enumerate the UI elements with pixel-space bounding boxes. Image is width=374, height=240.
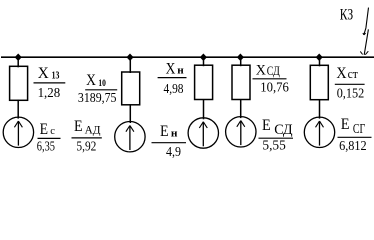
source EAD circle with EMF arrow (115, 122, 145, 152)
wire branch 2 resistor to source (129, 104, 131, 123)
wire bus line (1, 56, 374, 58)
wire branch 1 resistor to source (17, 100, 19, 119)
node junction dot 2 (126, 53, 133, 61)
resistor XSD (232, 65, 250, 99)
label ESD (259, 117, 294, 153)
svg-text:СД: СД (267, 63, 280, 78)
fraction line Ec (38, 137, 61, 139)
resistor X10 (122, 72, 140, 105)
fraction line Xst (335, 83, 365, 85)
label Xn (158, 61, 187, 96)
svg-text:5,92: 5,92 (76, 139, 96, 154)
svg-text:Е: Е (262, 117, 271, 134)
svg-text:КЗ: КЗ (340, 7, 354, 24)
svg-text:Х: Х (86, 72, 96, 89)
svg-text:Х: Х (336, 65, 346, 82)
fraction line X10 (85, 89, 117, 91)
wire branch 3 resistor to source (203, 99, 205, 119)
svg-text:5,55: 5,55 (262, 138, 286, 153)
svg-text:СГ: СГ (353, 121, 365, 136)
wire branch 5 resistor to source (319, 99, 321, 118)
resistor Xn (195, 65, 213, 99)
label XSD (253, 62, 290, 94)
svg-text:Е: Е (160, 123, 169, 140)
wire branch 1 bus to resistor (17, 57, 19, 67)
svg-text:АД: АД (85, 122, 101, 136)
svg-text:Х: Х (256, 62, 266, 78)
fraction line En (152, 142, 187, 144)
fraction line XSD (253, 78, 287, 80)
svg-text:6,35: 6,35 (37, 138, 55, 153)
node junction dot 1 (15, 53, 22, 61)
wire branch 4 bus to resistor (240, 57, 242, 66)
svg-text:10,76: 10,76 (260, 79, 289, 94)
svg-text:СД: СД (274, 122, 293, 138)
svg-text:3189,75: 3189,75 (78, 90, 117, 105)
fraction line ESG (338, 136, 372, 138)
node junction dot 5 (316, 53, 323, 61)
svg-text:ст: ст (348, 66, 359, 81)
label X10 (78, 72, 117, 105)
svg-text:0,152: 0,152 (337, 86, 365, 101)
fraction line EAD (72, 137, 102, 139)
svg-text:13: 13 (52, 71, 60, 82)
label ESG (338, 116, 372, 153)
wire branch 3 bus to resistor (203, 57, 205, 66)
label Ec (37, 121, 61, 154)
wire branch 2 bus to resistor (129, 57, 131, 73)
svg-text:6,812: 6,812 (339, 138, 367, 153)
svg-text:10: 10 (98, 78, 106, 88)
resistor X13 (10, 66, 28, 100)
svg-text:н: н (171, 128, 178, 139)
svg-text:Е: Е (40, 121, 48, 138)
svg-text:4,98: 4,98 (164, 81, 184, 96)
fraction line ESD (259, 137, 294, 139)
label En (152, 123, 187, 159)
node junction dot 4 (237, 53, 244, 61)
source Ec circle with EMF arrow (3, 117, 33, 147)
resistor Xst (310, 65, 328, 99)
fraction line Xn (158, 77, 187, 79)
fraction line X13 (34, 82, 66, 84)
label EAD (72, 118, 102, 153)
svg-text:н: н (177, 66, 184, 77)
source En circle with EMF arrow (188, 118, 218, 148)
svg-text:Е: Е (341, 116, 350, 133)
svg-text:с: с (50, 125, 55, 137)
label X13 (34, 65, 66, 100)
svg-text:Х: Х (166, 61, 176, 78)
svg-text:1,28: 1,28 (38, 85, 61, 100)
node junction dot 3 (200, 53, 207, 61)
svg-text:Х: Х (38, 65, 49, 82)
wire branch 5 bus to resistor (319, 57, 321, 66)
svg-text:Е: Е (74, 118, 83, 135)
source ESG circle with EMF arrow (304, 117, 334, 147)
wire branch 4 resistor to source (240, 99, 242, 118)
source ESD circle with EMF arrow (226, 117, 256, 147)
short-circuit lightning arrow (360, 8, 368, 55)
label Xst (335, 65, 365, 101)
svg-text:4,9: 4,9 (166, 144, 181, 159)
